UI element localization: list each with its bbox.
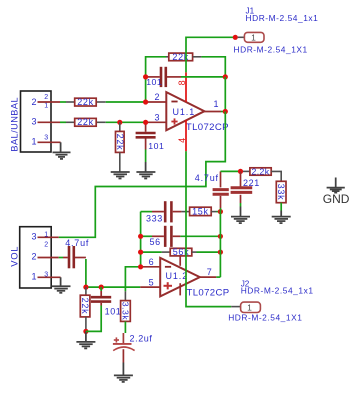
svg-text:1: 1 bbox=[32, 272, 37, 282]
wire BAL pin1 to ground bbox=[60, 142, 62, 152]
VOL pin 3 stub bbox=[38, 236, 59, 238]
node dot C5 top bbox=[99, 285, 104, 290]
svg-text:56: 56 bbox=[150, 237, 161, 247]
capacitor 101 C2 under pin3 bbox=[136, 122, 165, 151]
svg-text:2.2uf: 2.2uf bbox=[130, 334, 153, 344]
header J1 bbox=[234, 7, 319, 55]
svg-text:GND: GND bbox=[323, 192, 350, 206]
svg-text:TL072CP: TL072CP bbox=[186, 122, 229, 133]
svg-text:221: 221 bbox=[243, 178, 260, 188]
svg-text:5: 5 bbox=[149, 277, 154, 287]
wire C9 top to 2.2k node bbox=[221, 170, 241, 172]
wire feedback right column U1.2 bbox=[219, 212, 221, 278]
capacitor 333 C7 bbox=[141, 201, 182, 223]
U1.1 pin 2 stub bbox=[146, 101, 167, 103]
resistor 3.3k R6 vertical bbox=[120, 291, 130, 321]
svg-text:8: 8 bbox=[177, 80, 187, 85]
node dot pin2 bbox=[143, 99, 148, 104]
resistor 22k R1 bbox=[66, 97, 106, 107]
BAL pin 1 stub bbox=[38, 141, 61, 143]
capacitor 2.2uf C6 polarized bbox=[113, 333, 153, 363]
BAL pin 2 stub bbox=[38, 101, 61, 103]
header J2 bbox=[228, 279, 313, 322]
capacitor 101 C5 bbox=[91, 287, 122, 316]
svg-text:3: 3 bbox=[44, 135, 48, 142]
BAL pin 1 name and number bbox=[32, 135, 49, 147]
capacitor 221 C10 bbox=[231, 171, 260, 203]
node dot 15k/4.7uf bbox=[218, 209, 223, 214]
svg-text:2: 2 bbox=[155, 92, 160, 102]
BAL pin 2 name and number bbox=[32, 94, 49, 109]
node dot 2.2k/221 bbox=[238, 169, 243, 174]
wire U1.1 output to VOL pin3 staircase bbox=[59, 112, 226, 238]
node dot pin3 bbox=[143, 120, 148, 125]
ground under R5 bbox=[76, 342, 95, 349]
wire C6 to ground bbox=[122, 363, 124, 376]
wire V+ to J1 bbox=[186, 37, 235, 72]
wire feedback left column U1.2 bbox=[140, 212, 142, 267]
node dot R5 bottom bbox=[83, 329, 88, 334]
wire C10 to ground bbox=[240, 203, 242, 207]
resistor 22k R2 bbox=[66, 117, 106, 127]
capacitor 56 C8 bbox=[141, 226, 181, 247]
svg-text:7: 7 bbox=[207, 267, 212, 277]
svg-text:1: 1 bbox=[251, 33, 256, 43]
node dot 56k right bbox=[218, 250, 223, 255]
svg-text:HDR-M-2.54_1x1: HDR-M-2.54_1x1 bbox=[246, 13, 319, 23]
svg-text:U1.1: U1.1 bbox=[173, 107, 196, 117]
resistor 15k R7 bbox=[181, 207, 216, 217]
svg-text:33k: 33k bbox=[276, 184, 286, 201]
node dot 56 right bbox=[218, 234, 223, 239]
capacitor 4.7uf C9 bbox=[195, 171, 229, 208]
U1.1 output pin 1 stub bbox=[204, 99, 225, 112]
wire VOL pin2 to C4 bbox=[59, 257, 63, 259]
supply symbol GND bbox=[323, 178, 350, 206]
op-amp U1.1 bbox=[166, 92, 229, 133]
wire BAL pin2 to R1 bbox=[60, 101, 66, 103]
wire C5 bottom to R5 bottom bbox=[86, 306, 101, 332]
wire pin5 row bbox=[86, 286, 140, 288]
wire pin6 branch to R6 bbox=[125, 267, 140, 292]
wire VOL pin1 to ground bbox=[60, 277, 62, 286]
svg-text:1: 1 bbox=[214, 99, 219, 109]
resistor 22k R3 vertical bbox=[115, 122, 125, 171]
svg-text:101: 101 bbox=[146, 77, 162, 87]
svg-text:U1.2: U1.2 bbox=[166, 271, 189, 281]
node dot feedback right bbox=[223, 74, 228, 79]
svg-text:3: 3 bbox=[155, 112, 160, 122]
wire C9 bottom to node bbox=[220, 208, 222, 212]
svg-text:22k: 22k bbox=[77, 117, 94, 127]
ground under VOL bbox=[52, 286, 71, 293]
wire R2 to pin3 node bbox=[106, 121, 146, 123]
wire R10 to ground bbox=[280, 203, 282, 211]
resistor 2.2k R9 bbox=[243, 166, 281, 181]
wire C2 to ground bbox=[145, 150, 147, 163]
wire C1 to output column bbox=[181, 76, 225, 78]
svg-text:1: 1 bbox=[44, 103, 48, 110]
ground under C6 bbox=[114, 375, 133, 382]
U1.2 power stub bottom bbox=[179, 283, 181, 295]
U1.1 pin 3 stub bbox=[146, 121, 167, 123]
wire R5 to ground bbox=[85, 331, 87, 341]
svg-text:VOL: VOL bbox=[8, 246, 19, 267]
U1.2 output pin 7 stub bbox=[200, 267, 221, 277]
svg-text:4.7uf: 4.7uf bbox=[65, 238, 89, 248]
wire R4 to output column bbox=[201, 57, 225, 77]
resistor 33k R10 vertical bbox=[276, 181, 286, 202]
svg-text:HDR-M-2.54_1x1: HDR-M-2.54_1x1 bbox=[241, 286, 314, 296]
ground under R10 bbox=[272, 217, 291, 224]
ground under C10 bbox=[231, 217, 250, 224]
VOL pin 1 stub bbox=[38, 276, 61, 278]
svg-text:1: 1 bbox=[247, 303, 252, 313]
op-amp U1.2 bbox=[160, 258, 229, 299]
wire R7 to right column bbox=[217, 211, 221, 213]
wire R8 to right column bbox=[197, 251, 221, 253]
wire BAL pin3 to R2 bbox=[60, 121, 66, 123]
wire C8 to right column bbox=[180, 235, 220, 237]
node dot feedback left bbox=[143, 74, 148, 79]
VOL pin 3 name and numbers bbox=[32, 232, 49, 249]
resistor 22k R4 feedback bbox=[166, 52, 201, 62]
wire output column bbox=[224, 77, 226, 112]
node dot pin6 bbox=[138, 264, 143, 269]
svg-text:101: 101 bbox=[148, 141, 164, 151]
svg-text:2.2k: 2.2k bbox=[251, 166, 269, 176]
svg-text:22k: 22k bbox=[80, 298, 90, 315]
node dot pin5 left bbox=[83, 285, 88, 290]
svg-text:22k: 22k bbox=[77, 97, 94, 107]
capacitor 4.7uf C4 bbox=[63, 238, 89, 268]
connector BAL/UNBAL box bbox=[9, 91, 51, 152]
svg-text:1: 1 bbox=[32, 136, 37, 146]
svg-text:HDR-M-2.54_1X1: HDR-M-2.54_1X1 bbox=[228, 312, 302, 322]
svg-text:3: 3 bbox=[32, 116, 37, 126]
svg-text:3: 3 bbox=[32, 232, 37, 242]
BAL pin 3 stub bbox=[38, 121, 61, 123]
svg-text:2: 2 bbox=[32, 97, 37, 107]
ground under R3 bbox=[111, 172, 130, 179]
node dot pin3/R3 bbox=[117, 120, 122, 125]
node dot output U1.1 bbox=[223, 109, 228, 114]
svg-text:333: 333 bbox=[146, 214, 163, 224]
node dot 56 left bbox=[138, 234, 143, 239]
node dot J1 bbox=[233, 35, 238, 40]
svg-text:BAL/UNBAL: BAL/UNBAL bbox=[9, 97, 19, 152]
wire inverting column U1.1 bbox=[146, 57, 166, 102]
svg-text:4: 4 bbox=[177, 138, 187, 143]
svg-text:HDR-M-2.54_1X1: HDR-M-2.54_1X1 bbox=[234, 44, 308, 54]
svg-text:2: 2 bbox=[32, 252, 37, 262]
VOL pin 1 name and number bbox=[32, 272, 49, 282]
U1.2 power stub top bbox=[179, 256, 181, 266]
svg-text:2: 2 bbox=[44, 94, 48, 101]
svg-text:6: 6 bbox=[149, 257, 154, 267]
ground under C2 bbox=[136, 172, 155, 179]
VOL pin 2 stub bbox=[38, 257, 59, 259]
svg-text:TL072CP: TL072CP bbox=[187, 287, 230, 298]
node dot 56k left bbox=[138, 250, 143, 255]
wire R6 to C6 bbox=[124, 321, 126, 333]
ground under BAL bbox=[53, 152, 71, 159]
svg-text:22k: 22k bbox=[115, 134, 125, 151]
U1.2 pin 6 stub bbox=[141, 266, 161, 268]
wire R1 to pin2 node bbox=[106, 101, 146, 103]
svg-text:4.7uf: 4.7uf bbox=[195, 173, 219, 183]
resistor 56k R8 bbox=[141, 247, 197, 257]
U1.1 power pin 4 stub bbox=[177, 120, 187, 152]
svg-text:2: 2 bbox=[44, 241, 48, 248]
U1.1 power pin 8 stub bbox=[177, 72, 187, 101]
svg-text:101: 101 bbox=[105, 306, 122, 316]
svg-text:3.3k: 3.3k bbox=[120, 302, 130, 321]
connector VOL box bbox=[8, 227, 51, 288]
svg-text:15k: 15k bbox=[192, 207, 209, 217]
wire C4 down to pin5 row bbox=[85, 259, 87, 287]
wire V- net pin4 to J2 bbox=[186, 151, 231, 306]
U1.2 pin 5 stub bbox=[140, 286, 160, 288]
capacitor 101 C1 feedback bbox=[146, 67, 181, 87]
resistor 22k R5 vertical bbox=[80, 287, 90, 331]
